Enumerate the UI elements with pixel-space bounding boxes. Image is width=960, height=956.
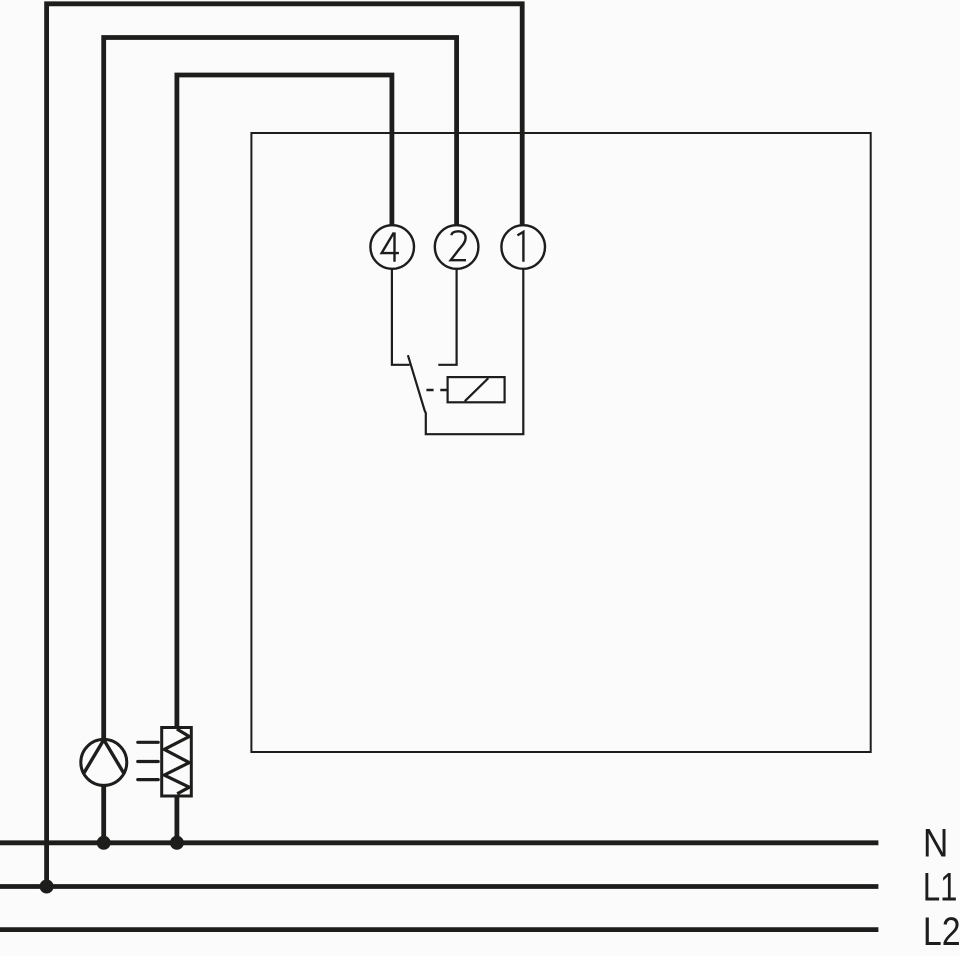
heater E1 zigzag element bbox=[164, 729, 189, 794]
heater radiation dash middle bbox=[138, 760, 158, 763]
terminal circle 4 bbox=[370, 225, 414, 269]
heater radiation dash top bbox=[138, 741, 158, 744]
wire terminal-2 to pump (top loop) bbox=[104, 38, 457, 741]
heater E1 box bbox=[162, 728, 192, 797]
wire pump to N bbox=[101, 785, 106, 843]
heater radiation dash bottom bbox=[138, 778, 158, 781]
mains line N bbox=[0, 840, 878, 845]
mains line L1 bbox=[0, 884, 878, 889]
terminal label 1 bbox=[517, 232, 523, 262]
wire heater to N bbox=[174, 796, 179, 843]
terminal label 2 bbox=[451, 231, 466, 260]
relay coil box bbox=[448, 377, 505, 402]
junction L1 bbox=[40, 880, 54, 894]
wire terminal 4 to switch contact bbox=[392, 269, 410, 365]
mains line L2 bbox=[0, 927, 878, 932]
pump M1 right chord bbox=[104, 740, 125, 774]
pump M1 circle bbox=[81, 739, 127, 785]
terminal circle 1 bbox=[501, 225, 545, 269]
svg-text:L1: L1 bbox=[923, 865, 958, 909]
terminal label 4 bbox=[382, 232, 399, 261]
wire terminal-1 feed (L1 up, across top, down to terminal 1) bbox=[47, 4, 523, 887]
wire terminal-4 to heater (top loop) bbox=[177, 75, 392, 728]
svg-text:N: N bbox=[923, 821, 949, 865]
pump M1 left chord bbox=[83, 740, 104, 774]
junction heater-N bbox=[170, 836, 184, 850]
wire terminal 2 to switch contact bbox=[438, 269, 456, 365]
relay coil diagonal bbox=[465, 378, 489, 401]
terminal circle 2 bbox=[435, 225, 479, 269]
device enclosure box bbox=[251, 133, 870, 752]
switch arm and wire to terminal 1 bbox=[408, 269, 523, 434]
dashed actuator link bbox=[426, 389, 447, 391]
svg-text:L2: L2 bbox=[923, 910, 960, 954]
junction pump-N bbox=[97, 836, 111, 850]
